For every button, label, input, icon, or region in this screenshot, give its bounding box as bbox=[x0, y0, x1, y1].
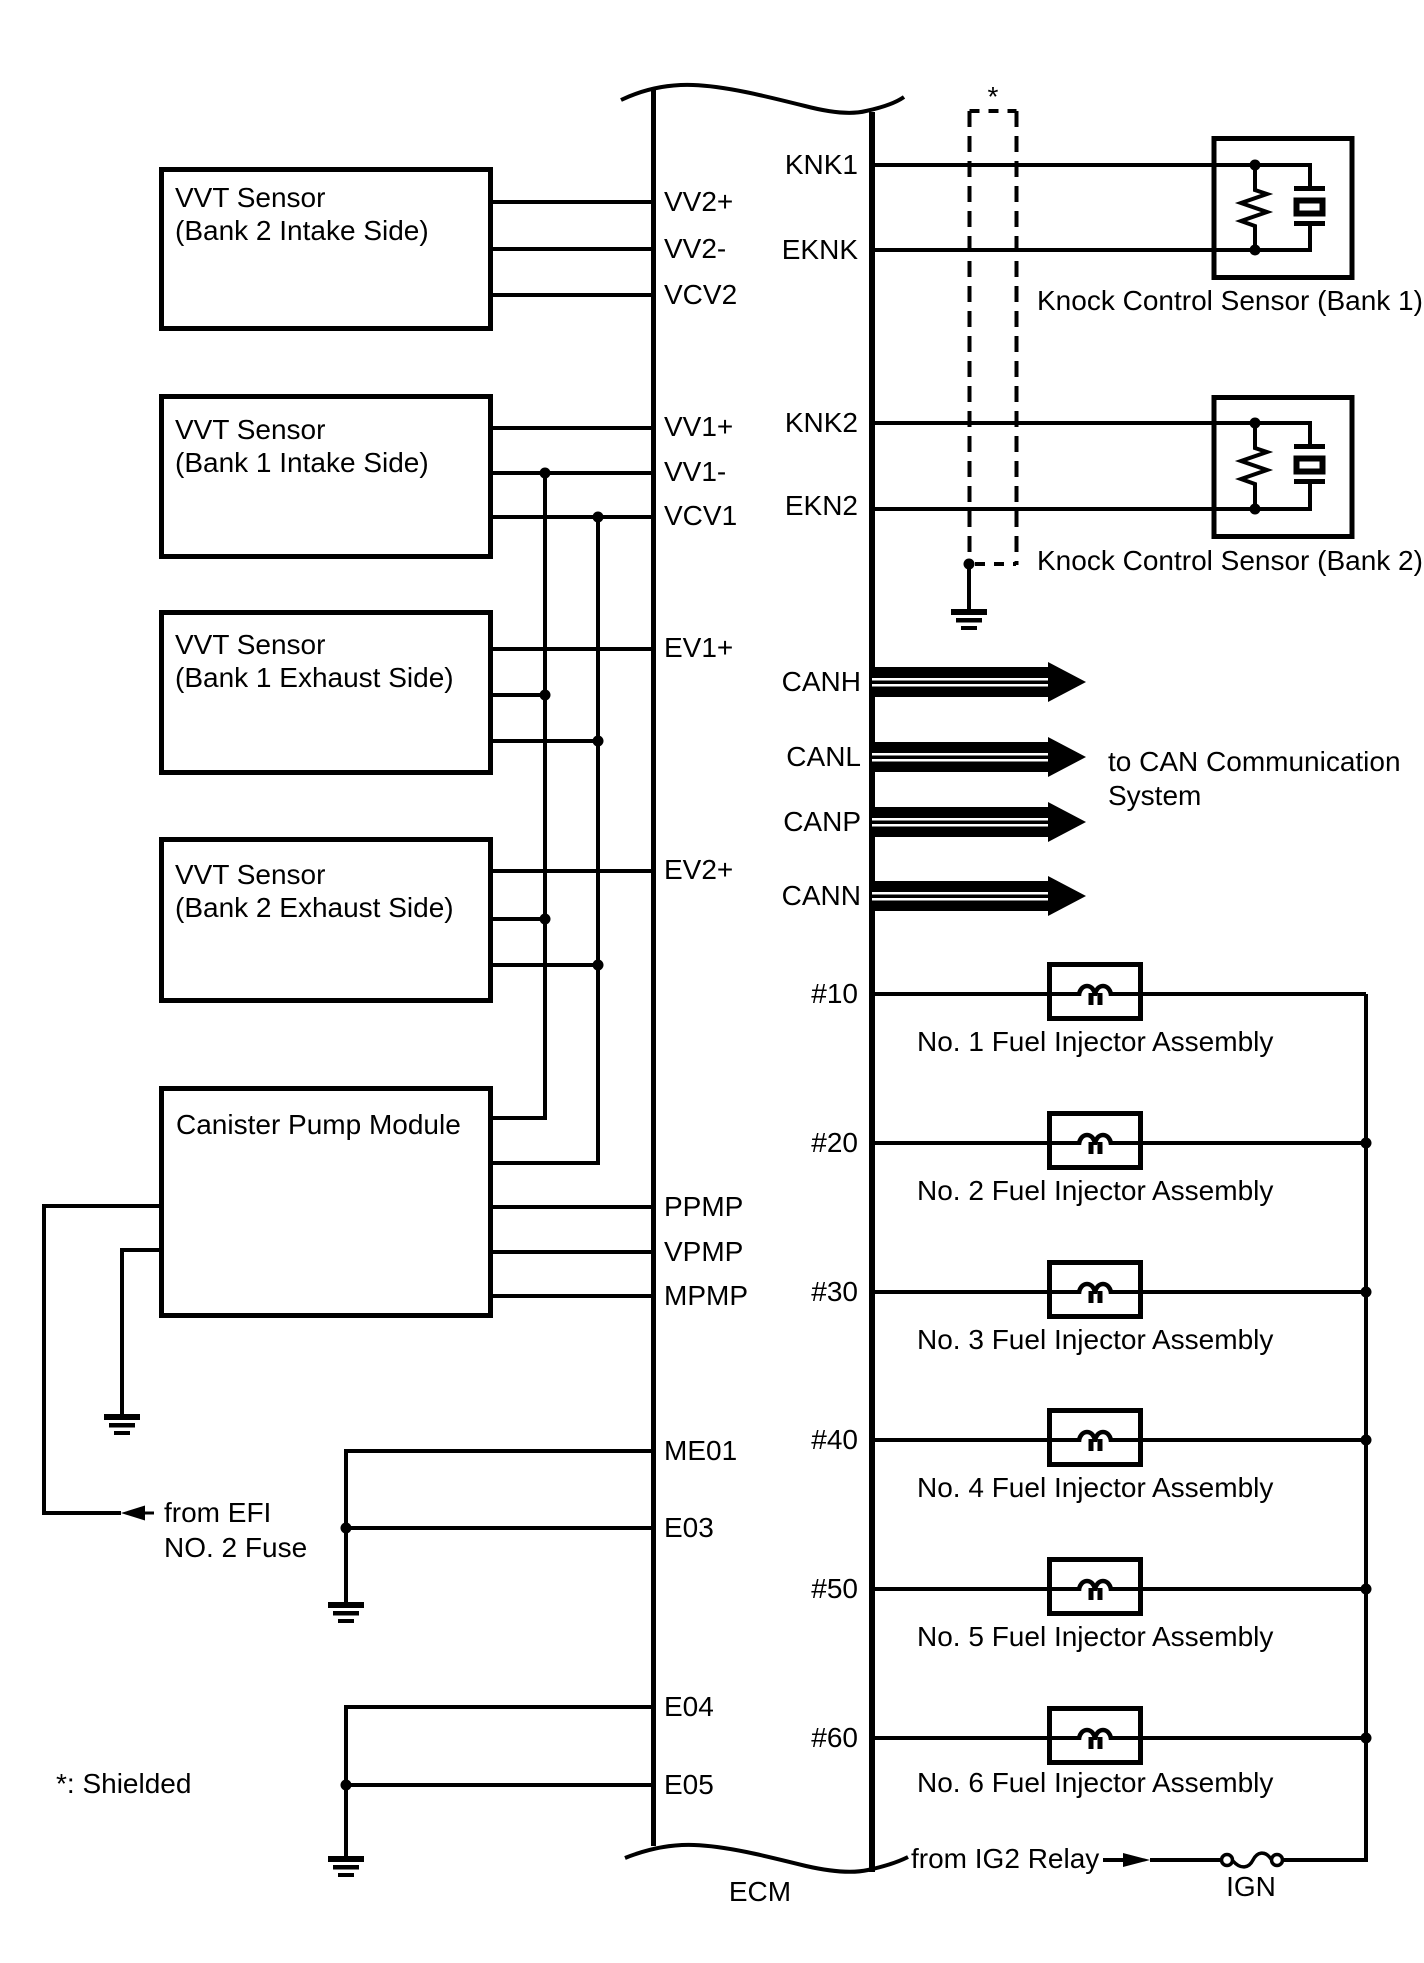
junction node bus #30 bbox=[1361, 1287, 1372, 1298]
wire VV1- bbox=[492, 471, 653, 475]
wire VCV2 bbox=[492, 293, 653, 297]
injector box 5 bbox=[1050, 1560, 1141, 1614]
wire VV2+ bbox=[492, 200, 653, 204]
wire relay to fuse bbox=[1150, 1858, 1221, 1862]
junction node on VCV1 bbox=[593, 512, 604, 523]
svg-text:System: System bbox=[1108, 780, 1201, 811]
svg-text:CANH: CANH bbox=[782, 666, 861, 697]
arrow tail stub bbox=[145, 1512, 154, 1515]
svg-text:*: Shielded: *: Shielded bbox=[56, 1768, 191, 1799]
fuse IGN bbox=[1222, 1853, 1283, 1867]
wire E04 bbox=[346, 1707, 653, 1856]
junction node E05 bbox=[341, 1780, 352, 1791]
svg-text:VV2-: VV2- bbox=[664, 233, 726, 264]
VVT sensor box (Bank 1 Exhaust Side) bbox=[162, 613, 491, 773]
svg-text:E05: E05 bbox=[664, 1769, 714, 1800]
junction node E03 bbox=[341, 1523, 352, 1534]
injector box 2 bbox=[1050, 1114, 1141, 1168]
ECM top break wave bbox=[621, 85, 904, 113]
CAN arrow CANP bbox=[872, 802, 1086, 842]
svg-text:VV1-: VV1- bbox=[664, 456, 726, 487]
svg-text:#30: #30 bbox=[811, 1276, 858, 1307]
svg-text:EKN2: EKN2 bbox=[785, 490, 858, 521]
ECM right edge bbox=[869, 112, 875, 1872]
VVT sensor box (Bank 2 Intake Side) bbox=[162, 170, 491, 329]
ground shield bbox=[951, 609, 987, 630]
coil injector 2 bbox=[1052, 1135, 1138, 1154]
coil injector 4 bbox=[1052, 1432, 1138, 1451]
junction node bus #50 bbox=[1361, 1584, 1372, 1595]
wire injector 2 bbox=[872, 1141, 1366, 1145]
svg-text:VVT Sensor: VVT Sensor bbox=[175, 859, 325, 890]
svg-text:EKNK: EKNK bbox=[782, 234, 859, 265]
junction node bus #60 bbox=[1361, 1733, 1372, 1744]
injector box 1 bbox=[1050, 965, 1141, 1019]
svg-text:EV2+: EV2+ bbox=[664, 854, 733, 885]
svg-text:No. 4 Fuel Injector Assembly: No. 4 Fuel Injector Assembly bbox=[917, 1472, 1273, 1503]
wire E03 bbox=[346, 1526, 653, 1530]
injector supply bus bbox=[1283, 994, 1366, 1860]
coil injector 5 bbox=[1052, 1581, 1138, 1600]
svg-text:#10: #10 bbox=[811, 978, 858, 1009]
svg-text:from IG2 Relay: from IG2 Relay bbox=[911, 1843, 1099, 1874]
svg-text:PPMP: PPMP bbox=[664, 1191, 743, 1222]
svg-text:(Bank 2 Exhaust Side): (Bank 2 Exhaust Side) bbox=[175, 892, 454, 923]
svg-text:VCV1: VCV1 bbox=[664, 500, 737, 531]
svg-text:No. 6 Fuel Injector Assembly: No. 6 Fuel Injector Assembly bbox=[917, 1767, 1273, 1798]
injector box 6 bbox=[1050, 1709, 1141, 1763]
coil injector 1 bbox=[1052, 986, 1138, 1005]
CAN arrow CANL bbox=[872, 737, 1086, 777]
svg-text:Knock Control Sensor (Bank 1): Knock Control Sensor (Bank 1) bbox=[1037, 285, 1423, 316]
wire from canister to EFI fuse bbox=[44, 1206, 159, 1513]
VVT sensor box (Bank 1 Intake Side) bbox=[162, 397, 491, 557]
svg-text:NO. 2 Fuse: NO. 2 Fuse bbox=[164, 1532, 307, 1563]
wire VV2- bbox=[492, 247, 653, 251]
svg-text:KNK1: KNK1 bbox=[785, 149, 858, 180]
node KNK2 top bbox=[1250, 418, 1261, 429]
svg-text:ECM: ECM bbox=[729, 1876, 791, 1907]
resistor knock 1 bbox=[1241, 165, 1267, 250]
svg-text:VV2+: VV2+ bbox=[664, 186, 733, 217]
svg-text:KNK2: KNK2 bbox=[785, 407, 858, 438]
svg-text:VV1+: VV1+ bbox=[664, 411, 733, 442]
wire EV2+ bbox=[492, 869, 653, 873]
Canister Pump Module box bbox=[162, 1089, 491, 1316]
svg-text:from EFI: from EFI bbox=[164, 1497, 271, 1528]
Knock Control Sensor (Bank 2) box bbox=[1214, 398, 1352, 537]
ECM left edge bbox=[651, 88, 656, 1846]
wire injector 4 bbox=[872, 1438, 1366, 1442]
node KNK1 top bbox=[1250, 160, 1261, 171]
wire to bus B bbox=[492, 963, 598, 967]
junction node on VV1- bbox=[540, 468, 551, 479]
CAN arrow CANN bbox=[872, 876, 1086, 916]
svg-text:CANN: CANN bbox=[782, 880, 861, 911]
wire MPMP bbox=[492, 1294, 653, 1298]
svg-text:#20: #20 bbox=[811, 1127, 858, 1158]
svg-text:*: * bbox=[988, 81, 999, 112]
junction node bus #20 bbox=[1361, 1138, 1372, 1149]
wire VV1+ bbox=[492, 426, 653, 430]
svg-text:#60: #60 bbox=[811, 1722, 858, 1753]
wire KNK2 bbox=[872, 421, 1255, 425]
ground canister bbox=[104, 1414, 140, 1435]
arrowhead from EFI fuse bbox=[121, 1506, 145, 1521]
coil injector 3 bbox=[1052, 1284, 1138, 1303]
wire VCV1 bbox=[492, 515, 653, 519]
junction node bus B bbox=[593, 960, 604, 971]
injector box 3 bbox=[1050, 1263, 1141, 1317]
junction node bus #40 bbox=[1361, 1435, 1372, 1446]
wire to bus A bbox=[492, 917, 545, 921]
svg-text:(Bank 1 Intake Side): (Bank 1 Intake Side) bbox=[175, 447, 429, 478]
wire injector 3 bbox=[872, 1290, 1366, 1294]
svg-text:VVT Sensor: VVT Sensor bbox=[175, 182, 325, 213]
junction node bus B bbox=[593, 736, 604, 747]
ground ME01/E03 bbox=[328, 1602, 364, 1623]
wire ME01 bbox=[346, 1451, 653, 1602]
svg-text:IGN: IGN bbox=[1226, 1871, 1276, 1902]
svg-text:VPMP: VPMP bbox=[664, 1236, 743, 1267]
svg-text:No. 3 Fuel Injector Assembly: No. 3 Fuel Injector Assembly bbox=[917, 1324, 1273, 1355]
shield ground wire bbox=[967, 564, 971, 609]
svg-text:E03: E03 bbox=[664, 1512, 714, 1543]
injector box 4 bbox=[1050, 1411, 1141, 1465]
svg-text:MPMP: MPMP bbox=[664, 1280, 748, 1311]
wire injector 1 bbox=[872, 992, 1366, 996]
Knock Control Sensor (Bank 1) box bbox=[1214, 139, 1352, 278]
wire to bus B bbox=[492, 739, 598, 743]
junction node bus A bbox=[540, 914, 551, 925]
svg-text:CANL: CANL bbox=[786, 741, 861, 772]
wire injector 5 bbox=[872, 1587, 1366, 1591]
vertical wire bus B bbox=[492, 517, 598, 1163]
svg-text:VVT Sensor: VVT Sensor bbox=[175, 414, 325, 445]
wire to bus A bbox=[492, 693, 545, 697]
svg-text:No. 2 Fuel Injector Assembly: No. 2 Fuel Injector Assembly bbox=[917, 1175, 1273, 1206]
wire VPMP bbox=[492, 1250, 653, 1254]
svg-text:ME01: ME01 bbox=[664, 1435, 737, 1466]
svg-text:No. 1 Fuel Injector Assembly: No. 1 Fuel Injector Assembly bbox=[917, 1026, 1273, 1057]
ECM bottom break wave bbox=[625, 1845, 908, 1872]
wire E05 bbox=[346, 1783, 653, 1787]
svg-text:CANP: CANP bbox=[783, 806, 861, 837]
coil injector 6 bbox=[1052, 1730, 1138, 1749]
svg-text:VVT Sensor: VVT Sensor bbox=[175, 629, 325, 660]
svg-text:Canister Pump Module: Canister Pump Module bbox=[176, 1109, 461, 1140]
svg-text:(Bank 2 Intake Side): (Bank 2 Intake Side) bbox=[175, 215, 429, 246]
wire injector 6 bbox=[872, 1736, 1366, 1740]
VVT sensor box (Bank 2 Exhaust Side) bbox=[162, 840, 491, 1001]
piezo element knock 1 bbox=[1255, 165, 1325, 250]
wire canister ground bbox=[122, 1250, 159, 1414]
svg-text:to CAN Communication: to CAN Communication bbox=[1108, 746, 1401, 777]
node EKN2 bottom bbox=[1250, 504, 1261, 515]
wire EV1+ bbox=[492, 647, 653, 651]
shield ground node bbox=[964, 559, 975, 570]
svg-text:EV1+: EV1+ bbox=[664, 632, 733, 663]
vertical wire bus A bbox=[492, 473, 545, 1118]
junction node bus A bbox=[540, 690, 551, 701]
wire KNK1 bbox=[872, 163, 1255, 167]
arrow from IG2 relay bbox=[1103, 1858, 1123, 1862]
shield dashed box bbox=[970, 111, 1017, 565]
piezo element knock 2 bbox=[1255, 423, 1325, 509]
svg-text:VCV2: VCV2 bbox=[664, 279, 737, 310]
svg-text:Knock Control Sensor (Bank 2): Knock Control Sensor (Bank 2) bbox=[1037, 545, 1423, 576]
wire EKNK bbox=[872, 248, 1255, 252]
wire PPMP bbox=[492, 1205, 653, 1209]
wire EKN2 bbox=[872, 507, 1255, 511]
svg-text:#40: #40 bbox=[811, 1424, 858, 1455]
ground E04/E05 bbox=[328, 1856, 364, 1877]
resistor knock 2 bbox=[1241, 423, 1267, 509]
svg-text:#50: #50 bbox=[811, 1573, 858, 1604]
CAN arrow CANH bbox=[872, 662, 1086, 702]
svg-text:No. 5 Fuel Injector Assembly: No. 5 Fuel Injector Assembly bbox=[917, 1621, 1273, 1652]
svg-text:(Bank 1 Exhaust Side): (Bank 1 Exhaust Side) bbox=[175, 662, 454, 693]
svg-text:E04: E04 bbox=[664, 1691, 714, 1722]
node EKNK bottom bbox=[1250, 245, 1261, 256]
